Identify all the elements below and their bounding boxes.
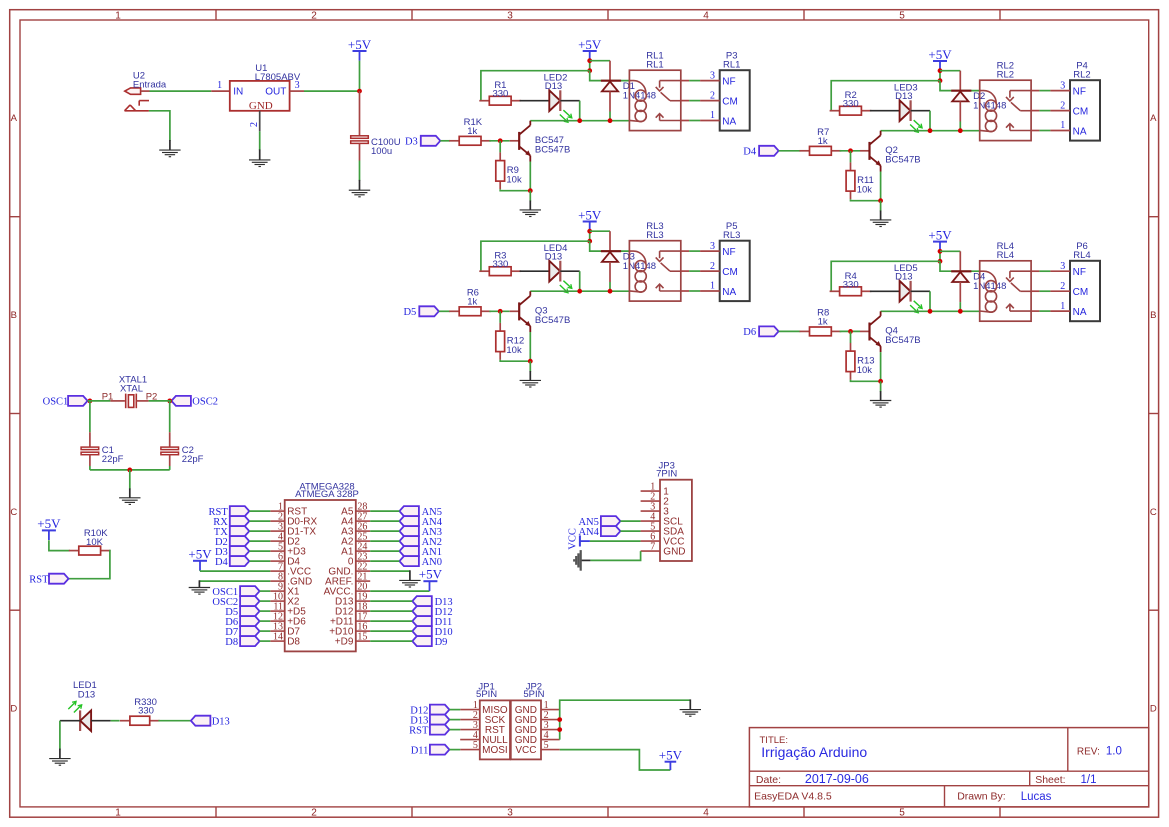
wire xyxy=(590,540,641,542)
wire xyxy=(1031,290,1039,292)
svg-text:BC547B: BC547B xyxy=(885,155,920,166)
wire xyxy=(149,111,170,141)
relay RL1 xyxy=(629,51,680,131)
wire xyxy=(89,401,91,432)
wire xyxy=(1031,270,1039,272)
net flag OSC1 xyxy=(43,396,88,408)
wire xyxy=(158,720,191,722)
power flag +5V xyxy=(348,37,372,61)
wire xyxy=(681,100,689,102)
wire xyxy=(500,360,530,362)
wire xyxy=(590,230,610,232)
net flag D13 xyxy=(412,596,452,608)
wire xyxy=(370,570,410,572)
wire xyxy=(90,469,170,471)
svg-text:2: 2 xyxy=(249,122,260,127)
net flag D5 xyxy=(403,306,438,318)
svg-text:1k: 1k xyxy=(818,317,828,328)
LED LED3 D13 xyxy=(894,83,922,133)
wire xyxy=(589,61,591,71)
svg-text:D5: D5 xyxy=(403,307,416,318)
junction xyxy=(848,329,853,334)
wire xyxy=(370,620,412,622)
wire xyxy=(590,241,630,251)
svg-text:330: 330 xyxy=(843,99,859,110)
svg-text:+5V: +5V xyxy=(928,47,952,62)
svg-text:D13: D13 xyxy=(545,81,562,92)
wire xyxy=(449,729,460,731)
junction xyxy=(928,128,933,133)
power flag +5V xyxy=(928,227,952,251)
svg-text:D13: D13 xyxy=(545,252,562,263)
wire xyxy=(560,100,579,102)
svg-text:2: 2 xyxy=(311,11,317,22)
wire xyxy=(370,530,399,532)
wire xyxy=(129,470,131,489)
net flag AN4 xyxy=(399,516,442,528)
wire xyxy=(149,400,172,402)
svg-text:3: 3 xyxy=(710,70,715,81)
svg-text:10k: 10k xyxy=(506,174,522,185)
net flag D10 xyxy=(412,626,452,638)
wire xyxy=(370,550,399,552)
svg-text:Irrigação Arduino: Irrigação Arduino xyxy=(761,744,867,760)
wire xyxy=(560,750,671,770)
svg-text:Lucas: Lucas xyxy=(1021,791,1052,803)
svg-text:3: 3 xyxy=(1060,261,1065,272)
svg-text:1: 1 xyxy=(1060,120,1065,131)
wire xyxy=(88,400,111,402)
svg-text:ATMEGA 328P: ATMEGA 328P xyxy=(295,489,359,500)
header JP2 5PIN xyxy=(511,682,560,760)
net flag D7 xyxy=(225,626,259,638)
svg-text:BC547B: BC547B xyxy=(535,315,570,326)
header JP3 7PIN xyxy=(641,461,692,561)
svg-text:NA: NA xyxy=(722,117,736,128)
net flag D6 xyxy=(225,616,259,628)
svg-text:Date:: Date: xyxy=(756,774,781,786)
wire xyxy=(779,150,801,152)
wire xyxy=(881,130,980,132)
ground xyxy=(119,488,140,504)
svg-text:GND: GND xyxy=(249,100,273,112)
resistor R7 1k xyxy=(800,127,842,155)
connector P5 xyxy=(700,221,750,301)
wire xyxy=(831,261,940,291)
wire xyxy=(590,60,610,62)
IC ATMEGA328P xyxy=(270,482,370,652)
transistor Q3 BC547B xyxy=(510,291,571,332)
svg-text:5PIN: 5PIN xyxy=(523,689,544,700)
wire xyxy=(940,70,960,72)
junction xyxy=(938,249,943,254)
wire xyxy=(489,140,509,142)
wire xyxy=(681,290,689,292)
wire xyxy=(449,749,460,751)
wire xyxy=(870,290,900,292)
junction xyxy=(928,309,933,314)
wire xyxy=(260,630,271,632)
power flag VCC xyxy=(568,528,590,550)
wire xyxy=(260,590,271,592)
svg-text:1k: 1k xyxy=(467,126,477,137)
svg-text:7PIN: 7PIN xyxy=(656,468,677,479)
wire xyxy=(249,510,270,512)
net flag AN0 xyxy=(399,556,442,568)
net flag OSC2 xyxy=(171,396,218,408)
header JP1 5PIN xyxy=(460,682,510,760)
wire xyxy=(449,719,460,721)
net flag D2 xyxy=(215,536,249,548)
svg-text:B: B xyxy=(1150,310,1156,321)
svg-text:5: 5 xyxy=(473,740,478,751)
resistor R1 330 xyxy=(479,80,521,105)
wire xyxy=(911,290,930,292)
junction xyxy=(167,399,172,404)
svg-text:D4: D4 xyxy=(215,557,229,568)
svg-text:14: 14 xyxy=(273,631,283,642)
svg-text:330: 330 xyxy=(492,89,508,100)
svg-text:XTAL: XTAL xyxy=(120,384,143,395)
svg-text:RL3: RL3 xyxy=(723,230,740,241)
ground xyxy=(49,749,70,766)
junction xyxy=(498,309,503,314)
power flag +5V xyxy=(419,567,443,591)
svg-text:3: 3 xyxy=(507,11,513,22)
wire xyxy=(1031,90,1039,92)
wire xyxy=(609,112,611,121)
net flag D3 xyxy=(215,546,249,558)
junction xyxy=(577,289,582,294)
net flag D8 xyxy=(225,636,259,648)
wire xyxy=(169,466,171,470)
svg-text:GND: GND xyxy=(663,547,685,558)
svg-text:NA: NA xyxy=(1073,127,1087,138)
junction xyxy=(938,78,943,83)
wire xyxy=(260,610,271,612)
svg-text:10K: 10K xyxy=(86,537,104,548)
junction xyxy=(958,128,963,133)
wire xyxy=(49,540,70,550)
wire xyxy=(60,720,80,722)
wire xyxy=(851,380,881,382)
wire xyxy=(939,71,941,81)
junction xyxy=(587,58,592,63)
wire xyxy=(370,610,412,612)
svg-text:10k: 10k xyxy=(857,365,873,376)
svg-text:D11: D11 xyxy=(411,745,429,756)
wire xyxy=(779,330,801,332)
svg-text:10k: 10k xyxy=(506,345,522,356)
wire xyxy=(520,100,550,102)
jack J1 sleeve contact xyxy=(125,101,150,111)
wire xyxy=(840,150,860,152)
power flag +5V xyxy=(578,207,602,231)
wire xyxy=(579,271,581,291)
svg-text:C: C xyxy=(1150,507,1157,518)
svg-text:RL4: RL4 xyxy=(997,250,1014,261)
net flag D13 xyxy=(410,715,449,727)
svg-text:2: 2 xyxy=(710,261,715,272)
wire xyxy=(1031,130,1039,132)
net flag D5 xyxy=(225,606,259,618)
wire xyxy=(249,550,270,552)
ground xyxy=(399,570,420,587)
svg-text:1: 1 xyxy=(115,11,121,22)
resistor R330 330 xyxy=(120,697,160,725)
wire xyxy=(370,630,412,632)
svg-text:+5V: +5V xyxy=(348,37,372,52)
svg-text:1/1: 1/1 xyxy=(1081,774,1097,786)
resistor R12 10k xyxy=(496,323,524,360)
relay RL3 xyxy=(629,221,680,301)
junction xyxy=(127,468,132,473)
wire xyxy=(449,709,460,711)
svg-text:10k: 10k xyxy=(857,184,873,195)
svg-text:VCC: VCC xyxy=(568,528,579,550)
junction xyxy=(498,138,503,143)
svg-text:1: 1 xyxy=(217,80,222,91)
wire xyxy=(850,331,852,343)
power flag +5V xyxy=(188,547,212,571)
svg-text:4: 4 xyxy=(703,11,709,22)
capacitor C2 22pF xyxy=(161,432,204,466)
net flag RST xyxy=(209,506,250,518)
svg-text:VCC: VCC xyxy=(515,745,536,756)
svg-text:2: 2 xyxy=(710,90,715,101)
net flag D3 xyxy=(405,136,440,148)
svg-text:RL3: RL3 xyxy=(646,230,663,241)
svg-text:1k: 1k xyxy=(818,136,828,147)
svg-text:3: 3 xyxy=(507,808,513,819)
net flag D4 xyxy=(215,556,249,568)
wire xyxy=(359,161,361,181)
net flag AN5 xyxy=(399,506,442,518)
net flag D11 xyxy=(412,616,452,628)
svg-text:3: 3 xyxy=(1060,80,1065,91)
svg-text:EasyEDA V4.8.5: EasyEDA V4.8.5 xyxy=(754,791,832,803)
connector U2 Entrada pin 1 xyxy=(125,70,167,94)
wire xyxy=(929,111,931,131)
svg-text:A: A xyxy=(11,113,18,124)
svg-text:+5V: +5V xyxy=(188,547,212,562)
svg-text:330: 330 xyxy=(492,259,508,270)
ground xyxy=(574,550,581,571)
resistor R3 330 xyxy=(479,251,521,276)
wire xyxy=(870,110,900,112)
svg-text:A: A xyxy=(1150,113,1157,124)
svg-text:3: 3 xyxy=(710,241,715,252)
net flag D12 xyxy=(410,705,449,717)
svg-text:D8: D8 xyxy=(287,637,300,648)
connector P4 xyxy=(1050,61,1100,141)
junction xyxy=(88,399,93,404)
net flag AN1 xyxy=(399,546,442,558)
svg-text:1: 1 xyxy=(1060,301,1065,312)
wire xyxy=(260,640,271,642)
svg-text:D13: D13 xyxy=(895,91,912,102)
svg-text:NF: NF xyxy=(722,247,735,258)
wire xyxy=(249,560,270,562)
wire xyxy=(370,510,399,512)
capacitor C100U 100u xyxy=(351,91,401,160)
wire xyxy=(370,600,412,602)
wire xyxy=(880,172,882,201)
svg-text:5: 5 xyxy=(899,11,905,22)
junction xyxy=(608,289,613,294)
wire xyxy=(529,332,531,361)
wire xyxy=(89,466,91,470)
junction xyxy=(938,259,943,264)
resistor R11 10k xyxy=(846,162,874,199)
wire xyxy=(370,520,399,522)
wire xyxy=(590,551,640,560)
resistor R8 1k xyxy=(800,308,842,336)
svg-text:+5V: +5V xyxy=(659,748,683,763)
wire xyxy=(520,270,550,272)
svg-text:+5V: +5V xyxy=(578,37,602,52)
svg-text:CM: CM xyxy=(1073,107,1089,118)
wire xyxy=(111,720,120,722)
wire xyxy=(481,71,590,101)
svg-text:2017-09-06: 2017-09-06 xyxy=(805,772,869,786)
diode D1 1N4148 xyxy=(601,61,656,112)
net flag AN3 xyxy=(399,526,442,538)
wire xyxy=(529,361,531,372)
wire xyxy=(589,231,591,241)
resistor R4 330 xyxy=(830,271,872,296)
wire xyxy=(681,270,689,272)
junction xyxy=(357,89,362,94)
svg-text:D4: D4 xyxy=(743,147,757,158)
power flag +5V xyxy=(578,37,602,61)
resistor R10K 10K xyxy=(69,528,111,555)
svg-text:1: 1 xyxy=(115,808,121,819)
wire xyxy=(440,140,450,142)
ground xyxy=(189,580,210,594)
wire xyxy=(199,580,270,582)
wire xyxy=(579,101,581,121)
wire xyxy=(370,560,399,562)
wire xyxy=(481,241,590,271)
wire xyxy=(880,352,882,381)
svg-text:D13: D13 xyxy=(212,717,230,728)
svg-text:2: 2 xyxy=(1060,281,1065,292)
svg-text:NF: NF xyxy=(1073,267,1086,278)
LED LED4 D13 xyxy=(544,243,572,293)
wire xyxy=(939,251,941,261)
title block xyxy=(749,728,1148,807)
diode D3 1N4148 xyxy=(601,231,656,282)
ground xyxy=(870,391,891,407)
junction xyxy=(848,148,853,153)
resistor R9 10k xyxy=(496,152,522,189)
wire xyxy=(881,310,980,312)
wire xyxy=(530,120,629,122)
wire xyxy=(59,721,61,750)
svg-text:330: 330 xyxy=(843,279,859,290)
junction xyxy=(528,359,533,364)
svg-text:D6: D6 xyxy=(743,327,756,338)
wire xyxy=(959,302,961,311)
svg-text:D9: D9 xyxy=(435,637,448,648)
LED LED1 D13 xyxy=(68,680,96,731)
diode D2 1N4148 xyxy=(951,71,1006,122)
svg-text:D13: D13 xyxy=(895,272,912,283)
ground xyxy=(520,371,541,387)
junction xyxy=(878,379,883,384)
svg-text:D8: D8 xyxy=(225,637,238,648)
svg-text:Drawn By:: Drawn By: xyxy=(957,791,1005,803)
wire xyxy=(1031,110,1039,112)
junction xyxy=(587,239,592,244)
wire xyxy=(609,282,611,291)
ground xyxy=(249,149,270,166)
wire xyxy=(499,141,501,153)
svg-text:NA: NA xyxy=(722,287,736,298)
wire xyxy=(260,600,271,602)
wire xyxy=(259,131,261,150)
ground xyxy=(870,211,891,227)
svg-text:BC547B: BC547B xyxy=(885,335,920,346)
svg-text:RST: RST xyxy=(409,725,429,736)
wire xyxy=(681,80,689,82)
transistor Q2 BC547B xyxy=(860,131,921,172)
wire xyxy=(249,540,270,542)
net flag RX xyxy=(213,516,249,528)
LED LED2 D13 xyxy=(544,73,572,123)
svg-text:+D9: +D9 xyxy=(335,637,354,648)
svg-text:7: 7 xyxy=(650,541,655,552)
wire xyxy=(840,330,860,332)
net flag RST xyxy=(409,725,449,737)
LED LED5 D13 xyxy=(894,263,922,313)
svg-text:RL1: RL1 xyxy=(646,60,663,71)
wire xyxy=(91,720,111,722)
net flag D11 xyxy=(411,745,450,757)
wire xyxy=(560,270,579,272)
svg-text:MOSI: MOSI xyxy=(482,745,508,756)
svg-text:22pF: 22pF xyxy=(102,454,124,465)
junction xyxy=(878,198,883,203)
net flag AN2 xyxy=(399,536,442,548)
svg-text:Sheet:: Sheet: xyxy=(1035,774,1065,786)
wire xyxy=(620,530,640,532)
wire xyxy=(260,620,271,622)
svg-text:22pF: 22pF xyxy=(182,454,204,465)
wire xyxy=(851,199,881,201)
wire xyxy=(1031,310,1039,312)
svg-text:Entrada: Entrada xyxy=(133,80,167,91)
wire xyxy=(929,291,931,311)
net flag D13 xyxy=(191,716,230,728)
resistor R6 1k xyxy=(449,288,491,316)
svg-text:OUT: OUT xyxy=(265,87,286,98)
wire xyxy=(850,151,852,163)
svg-text:AN4: AN4 xyxy=(578,527,599,538)
svg-text:1: 1 xyxy=(710,281,715,292)
svg-text:+5V: +5V xyxy=(578,207,602,222)
svg-text:OSC1: OSC1 xyxy=(43,397,69,408)
junction xyxy=(528,188,533,193)
svg-text:330: 330 xyxy=(138,706,154,717)
net flag D12 xyxy=(412,606,452,618)
junction xyxy=(557,717,562,722)
svg-text:CM: CM xyxy=(722,267,738,278)
junction xyxy=(587,229,592,234)
svg-text:IN: IN xyxy=(233,87,243,98)
net flag AN5 xyxy=(578,516,620,528)
